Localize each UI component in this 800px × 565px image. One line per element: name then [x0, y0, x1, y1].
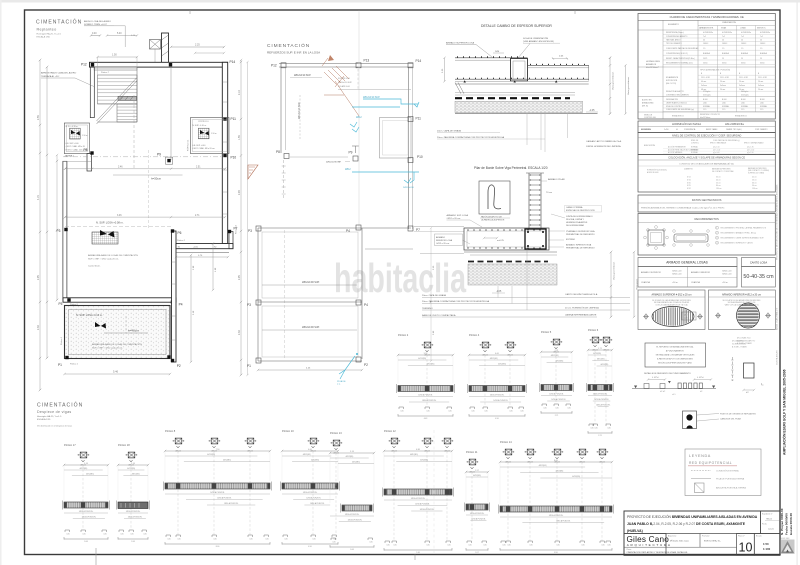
svg-text:156 cm: 156 cm	[752, 188, 758, 190]
svg-text:40 mm: 40 mm	[701, 81, 707, 83]
plan1 column P14	[223, 63, 226, 66]
svg-text:2.46: 2.46	[118, 166, 123, 168]
svg-text:C≥150: C≥150	[664, 129, 669, 131]
recubrimientos beam diagram	[674, 234, 708, 242]
plan2 column P10	[408, 158, 413, 163]
svg-text:Hormigón HA-25, Yc=1.5: Hormigón HA-25, Yc=1.5	[37, 32, 62, 35]
plan2 blue annotation upper	[352, 99, 419, 107]
svg-text:4Ø12(B5): 4Ø12(B5)	[498, 364, 506, 366]
detail1 gravel band	[455, 101, 583, 112]
svg-text:1Ø16 A PUNZON.: 1Ø16 A PUNZON.	[593, 393, 608, 396]
svg-text:CONT. CEMENTO: CONT. CEMENTO	[755, 129, 768, 131]
svg-text:Pórtico 12: Pórtico 12	[384, 429, 396, 433]
svg-text:CAJEADO APOYO PARRILLA / N.A.: CAJEADO APOYO PARRILLA / N.A.	[586, 140, 622, 143]
svg-text:BARRAS SUPERIORES: BARRAS SUPERIORES	[748, 167, 767, 170]
svg-text:20 mm: 20 mm	[720, 81, 726, 83]
svg-text:JUNTA. HORMIGÓN DE LIMPIEZA: JUNTA. HORMIGÓN DE LIMPIEZA	[586, 145, 621, 148]
svg-text:ARMADO INFERIOR VIGA: ARMADO INFERIOR VIGA	[566, 244, 592, 247]
svg-text:0.25: 0.25	[448, 411, 451, 413]
svg-text:4.86: 4.86	[416, 449, 420, 451]
svg-text:1Ø16 A PUNZON.: 1Ø16 A PUNZON.	[594, 398, 609, 401]
table4 colocacion anclaje	[638, 155, 775, 193]
svg-text:2Ø12: 2Ø12	[345, 169, 351, 171]
svg-text:25 B - 4 SR: 25 B - 4 SR	[720, 77, 730, 79]
detail2 beam top rebar dots	[467, 229, 540, 230]
svg-text:CANTO SEGÚN PLANILLA / N.A.: CANTO SEGÚN PLANILLA / N.A.	[565, 293, 598, 296]
svg-text:Pórtico 14: Pórtico 14	[500, 440, 512, 444]
svg-text:NIVEL DE CONTROL: NIVEL DE CONTROL	[666, 106, 682, 108]
recubrimientos square diagram	[648, 230, 664, 245]
svg-text:0.25: 0.25	[594, 428, 597, 430]
svg-text:25: 25	[722, 58, 724, 60]
svg-text:CONEXIÓN EXTERNA: CONEXIÓN EXTERNA	[716, 470, 739, 473]
paper edge right	[797, 0, 798, 565]
detail1 waterproof dashed band	[455, 97, 570, 99]
table7 armado general losas header	[638, 258, 737, 267]
plan1 dim 076	[176, 256, 228, 258]
svg-text:40: 40	[703, 39, 705, 41]
armado inferior crosshairs	[715, 313, 721, 319]
svg-text:40: 40	[676, 129, 678, 131]
svg-text:ARMADO INFERIOR # Ø12 a 20 cm: ARMADO INFERIOR # Ø12 a 20 cm	[722, 293, 761, 296]
svg-text:NIVEL DE: NIVEL DE	[691, 140, 698, 142]
title block escala cell	[754, 534, 780, 556]
svg-text:Varia geométricam.: Varia geométricam.	[627, 76, 630, 95]
plan2 notch lines	[362, 227, 411, 229]
svg-text:1Ø16 A PUNZON.: 1Ø16 A PUNZON.	[422, 399, 437, 402]
plan2 column P3 mid	[256, 226, 261, 231]
plan1 column P13	[169, 63, 172, 66]
plan2 red reinforcement marks	[324, 66, 359, 116]
svg-text:Fecha 00/00/00: Fecha 00/00/00	[785, 513, 789, 535]
armado superior crosshairs	[643, 314, 649, 320]
svg-text:Replanteo: Replanteo	[37, 28, 57, 32]
refuerzo pilar leader texts	[697, 414, 719, 416]
svg-text:Ø 20: Ø 20	[687, 182, 691, 184]
svg-text:P2: P2	[364, 363, 368, 367]
svg-text:SEGÚN LA SUPERFICIE(S) EN PLAN: SEGÚN LA SUPERFICIE(S) EN PLANO	[658, 362, 692, 365]
plan2 right dim line	[430, 228, 432, 361]
table1 cuadro de caracteristicas box	[638, 14, 775, 120]
table1 mid band acero	[638, 66, 775, 68]
svg-text:CUADRO DE CARACTERISTICAS Y ES: CUADRO DE CARACTERISTICAS Y ESPECIFICACI…	[670, 15, 744, 19]
svg-text:e=0.25: e=0.25	[497, 240, 505, 242]
svg-text:50-40-35 cm: 50-40-35 cm	[743, 274, 774, 280]
svg-text:130 cm: 130 cm	[716, 188, 722, 190]
svg-text:0.25: 0.25	[265, 539, 268, 541]
detail1 bottom leader verticals	[526, 114, 528, 145]
svg-text:H-25/B/20/IIa: H-25/B/20/IIa	[741, 32, 751, 34]
svg-text:0.25: 0.25	[507, 545, 510, 547]
svg-text:1Ø16 A PUNZON.: 1Ø16 A PUNZON.	[310, 502, 325, 505]
svg-text:0.25: 0.25	[543, 408, 546, 410]
plan1 column P8	[90, 151, 93, 154]
svg-text:Ø 25: Ø 25	[687, 185, 691, 187]
plan1 column P7	[228, 230, 231, 233]
svg-text:ARMADURA BASE DE LOSAS DE CIME: ARMADURA BASE DE LOSAS DE CIMENTACIÓN	[88, 254, 138, 257]
svg-text:Pórtico 4: Pórtico 4	[469, 333, 480, 337]
svg-text:ZAPATA 2: ZAPATA 2	[65, 155, 75, 158]
svg-text:≥500: ≥500	[722, 101, 726, 104]
svg-text:2.95: 2.95	[238, 275, 241, 280]
punzonamiento comb teeth	[678, 383, 681, 389]
svg-text:P6: P6	[178, 231, 182, 235]
svg-text:+0.00: +0.00	[193, 247, 198, 249]
svg-text:RECUBRIMIENTO INFERIOR Y CANTO: RECUBRIMIENTO INFERIOR Y CANTO	[721, 242, 754, 245]
svg-text:COLOCACIÓN, ANCLAJE Y SOLAPE: COLOCACIÓN, ANCLAJE Y SOLAPE DE ARMADURA…	[668, 157, 745, 160]
plan1 connector y161	[63, 160, 91, 162]
svg-text:P4: P4	[346, 229, 350, 233]
pilar section detail axis	[731, 357, 733, 381]
svg-text:3.64: 3.64	[84, 541, 88, 543]
svg-text:2.21: 2.21	[555, 350, 559, 352]
svg-text:7±2: 7±2	[703, 36, 706, 38]
legend item pica	[691, 478, 711, 480]
svg-text:H-25/B/20/IIa: H-25/B/20/IIa	[722, 32, 732, 34]
svg-text:Pórtico 2: Pórtico 2	[177, 239, 186, 242]
detail2 gravel band	[468, 264, 557, 285]
plan2 bottom dim	[258, 369, 362, 371]
svg-text:EXPOSICIÓN: EXPOSICIÓN	[666, 79, 678, 82]
svg-text:Pórtico 8: Pórtico 8	[165, 429, 176, 433]
svg-text:ESTADÍSTICO: ESTADÍSTICO	[735, 115, 747, 118]
svg-text:DE COSTA ESURI, AYAMONTE: DE COSTA ESURI, AYAMONTE	[696, 522, 746, 526]
plan1 column P3	[64, 228, 67, 231]
svg-text:25 B - 4 SR: 25 B - 4 SR	[739, 77, 749, 79]
svg-text:Varia geométricam.: Varia geométricam.	[613, 261, 616, 280]
svg-text:Escala 0000-00: Escala 0000-00	[789, 513, 793, 535]
detail2 ladder top hooks	[526, 172, 544, 174]
svg-text:35 cm: 35 cm	[716, 177, 721, 179]
svg-text:0.25: 0.25	[369, 542, 372, 544]
plan1 armado blob icon	[92, 230, 118, 244]
svg-text:(H) CARA 75d: (H) CARA 75d	[732, 340, 743, 343]
svg-text:JUAN PABLO II,: JUAN PABLO II,	[627, 522, 653, 526]
svg-text:0. Ø75d: 0. Ø75d	[697, 377, 703, 379]
fold mark bottom x415	[414, 555, 416, 561]
svg-text:ANCHO LOSA DEL ALERO: ANCHO LOSA DEL ALERO	[84, 20, 111, 23]
svg-text:+50 m: +50 m	[722, 282, 728, 284]
svg-text:Ver distribución en el despiec: Ver distribución en el despiece de losas	[37, 425, 72, 428]
svg-text:R2: R2	[214, 247, 216, 249]
svg-text:1Ø16 A PUNZON.: 1Ø16 A PUNZON.	[79, 510, 94, 513]
svg-text:ZAPATAS/RIOSTR.: ZAPATAS/RIOSTR.	[699, 27, 714, 30]
svg-text:D≥5mm: D≥5mm	[758, 84, 764, 87]
svg-text:25/75: 25/75	[703, 58, 707, 60]
svg-text:20cm. ZAHORRA COMPACTADA CON P: 20cm. ZAHORRA COMPACTADA CON PROTECCIÓN …	[422, 300, 490, 303]
svg-text:Pórtico 5: Pórtico 5	[541, 330, 552, 334]
plan1 beam hatch under	[94, 67, 137, 70]
plan1 column P1	[65, 356, 68, 359]
svg-text:50mm: 50mm	[703, 62, 708, 64]
detail1 slab bottom lines	[455, 83, 589, 85]
svg-text:A PUNZONAMIENTO: A PUNZONAMIENTO	[666, 350, 685, 353]
table1 grid verticals	[662, 20, 664, 119]
svg-text:4.50: 4.50	[308, 546, 312, 548]
svg-text:0.25: 0.25	[177, 539, 180, 541]
svg-text:CEM II: CEM II	[722, 43, 728, 45]
svg-text:4Ø12(B5): 4Ø12(B5)	[539, 465, 547, 467]
svg-text:RECUBRIMIENTO NOMINAL (mm): RECUBRIMIENTO NOMINAL (mm)	[666, 61, 693, 64]
svg-text:Varia geométricam.: Varia geométricam.	[612, 71, 615, 90]
plan1 column P9 boxed	[166, 157, 173, 164]
svg-text:0.25: 0.25	[529, 545, 532, 547]
armado superior small box right	[682, 312, 696, 320]
svg-text:10: 10	[739, 541, 753, 555]
svg-text:ARMADO SUP. LOSA: ARMADO SUP. LOSA	[447, 214, 469, 217]
svg-text:CIMENTACIÓN: CIMENTACIÓN	[722, 21, 736, 24]
svg-text:Pórtico 10: Pórtico 10	[282, 429, 294, 433]
svg-text:1.5: 1.5	[703, 48, 705, 50]
svg-text:PÓRTICO 6: PÓRTICO 6	[198, 120, 208, 123]
svg-text:1Ø16 A PUNZON.: 1Ø16 A PUNZON.	[418, 394, 433, 397]
plan2 column P9	[353, 156, 358, 161]
svg-text:h=50cm: h=50cm	[151, 177, 162, 181]
title block outer	[624, 511, 780, 555]
svg-text:ARMADO GENERAL LOSAS: ARMADO GENERAL LOSAS	[666, 261, 708, 265]
svg-text:LONGITUD DE LOS ANCLAJES DE BA: LONGITUD DE LOS ANCLAJES DE BARRAS(BAL) …	[680, 162, 735, 165]
svg-text:0.25: 0.25	[555, 408, 558, 410]
svg-text:4Ø12(B5): 4Ø12(B5)	[420, 460, 428, 462]
svg-text:CANTO LOSA: CANTO LOSA	[750, 261, 767, 265]
plan1 column P2 low	[171, 359, 174, 362]
svg-text:20 mm: 20 mm	[720, 89, 726, 91]
svg-text:NORMAL: NORMAL	[722, 105, 729, 108]
svg-text:0.25: 0.25	[213, 539, 216, 541]
detail1 right dim lines	[609, 58, 611, 114]
svg-text:1Ø16 A PUNZON.: 1Ø16 A PUNZON.	[210, 491, 225, 494]
svg-text:20cm. ZAHORRA COMPACTADA CON P: 20cm. ZAHORRA COMPACTADA CON PROTECCIÓN …	[437, 136, 505, 139]
svg-text:LÁMINA IMPERMEABILIZANTE: LÁMINA IMPERMEABILIZANTE	[565, 314, 597, 317]
armado superior ellipse hatched	[652, 307, 694, 327]
svg-text:2.95: 2.95	[37, 275, 40, 280]
svg-text:P9: P9	[157, 152, 161, 156]
plan1 mid dim line2	[65, 216, 225, 218]
svg-text:D≥5mm: D≥5mm	[720, 84, 726, 87]
svg-text:300 kg/m³: 300 kg/m³	[741, 90, 749, 93]
svg-text:0.25: 0.25	[502, 545, 505, 547]
detail1 upper slab left rebar	[455, 57, 528, 59]
svg-text:1:50: 1:50	[763, 542, 769, 546]
svg-text:0.25: 0.25	[471, 411, 474, 413]
svg-text:fck=25 N/mm²: fck=25 N/mm²	[646, 66, 659, 69]
svg-text:PRESIÓN ADMISIBLE DEL TERRENO: PRESIÓN ADMISIBLE DEL TERRENO CONSIDERAD…	[641, 206, 725, 209]
svg-text:P12: P12	[271, 64, 277, 68]
svg-text:2.30: 2.30	[37, 325, 40, 330]
svg-text:Pórtico 13: Pórtico 13	[330, 431, 342, 435]
plan1 bottom dim line	[65, 373, 171, 375]
svg-text:AMPLIACIÓN ESURI GOLF Y SAN M: AMPLIACIÓN ESURI GOLF Y SAN MIGUEL 2005-…	[782, 369, 787, 455]
punzonamiento notes box	[645, 343, 706, 367]
svg-text:1.10 m: 1.10 m	[211, 133, 217, 135]
svg-text:ESTRIBO: ESTRIBO	[566, 239, 576, 241]
svg-text:P4: P4	[364, 303, 368, 307]
svg-text:3.14: 3.14	[350, 451, 354, 453]
svg-text:4.15: 4.15	[37, 195, 40, 200]
svg-text:N. SUP. -0.10 m.: N. SUP. -0.10 m.	[192, 125, 207, 127]
plan1 internal wall P6-P2	[172, 231, 177, 362]
paper edge shading	[0, 0, 800, 3]
svg-text:Promotor:: Promotor:	[702, 535, 710, 538]
svg-text:1.5: 1.5	[741, 48, 743, 50]
svg-text:0.65 kg/m³: 0.65 kg/m³	[703, 93, 711, 96]
svg-text:Ø 16: Ø 16	[687, 179, 691, 181]
svg-text:AVDA. JUAN PABLO II: AVDA. JUAN PABLO II	[776, 307, 779, 330]
svg-text:1Ø16 A PUNZON.: 1Ø16 A PUNZON.	[128, 516, 143, 519]
plan2 P9 bracket	[352, 145, 359, 147]
svg-text:4: 4	[716, 243, 717, 245]
svg-text:RESIST. CARACTERÍSTICA (25 N/m: RESIST. CARACTERÍSTICA (25 N/m)	[666, 57, 695, 60]
plan1 stairs upper flight	[98, 75, 138, 104]
svg-text:PERIMETRAL DE REFUERZO: PERIMETRAL DE REFUERZO	[566, 247, 595, 250]
svg-text:42 cm: 42 cm	[752, 177, 757, 179]
svg-text:P4: P4	[179, 303, 183, 307]
table6 recubrimientos	[638, 214, 775, 256]
svg-text:BLANDA: BLANDA	[760, 52, 768, 55]
svg-text:RECUBRIMIENTO ARMADO PRINC. B/: RECUBRIMIENTO ARMADO PRINC. B/D(+)	[721, 232, 757, 235]
plan1 lower slab rectangle hatched	[65, 306, 171, 359]
plan1 wall below P8	[87, 154, 92, 172]
plan2 blue mark at P2	[356, 353, 358, 355]
svg-text:PICA DE: PICA DE	[337, 380, 346, 383]
svg-text:SOLA DE CIMENTACIÓN: SOLA DE CIMENTACIÓN	[523, 37, 549, 40]
svg-text:LA PARRILLA SUPERIOR: LA PARRILLA SUPERIOR	[481, 218, 505, 221]
svg-text:SOBRE 1 TREN. ±0.07: SOBRE 1 TREN. ±0.07	[84, 24, 107, 26]
svg-text:1.5: 1.5	[722, 48, 724, 50]
svg-text:NORMAL: NORMAL	[741, 105, 748, 108]
svg-text:0.25: 0.25	[120, 534, 123, 536]
detail1 ground line	[455, 113, 598, 115]
title block promotor cell	[699, 534, 701, 548]
svg-text:20 mm: 20 mm	[739, 81, 745, 83]
svg-text:P11: P11	[416, 117, 422, 121]
plan1 column P2 corner	[167, 355, 170, 358]
svg-text:R2: R2	[178, 247, 180, 249]
svg-text:0.25: 0.25	[590, 428, 593, 430]
plan2 red triangle lower-left	[248, 165, 258, 179]
svg-text:2.55: 2.55	[37, 115, 40, 120]
legend box	[685, 449, 761, 496]
svg-text:ARMADO INFERIOR: ARMADO INFERIOR	[691, 271, 710, 274]
plan2 sup annotation mid	[262, 284, 357, 286]
plan2 column P7	[408, 226, 413, 231]
svg-text:ACERO EN: ACERO EN	[642, 99, 652, 102]
svg-text:4Ø12(B5): 4Ø12(B5)	[86, 474, 94, 476]
svg-text:P1: P1	[247, 364, 251, 368]
detail1 left dim	[444, 58, 446, 82]
svg-text:7±2: 7±2	[741, 36, 744, 38]
punzonamiento left rects	[644, 384, 649, 389]
svg-text:3: 3	[716, 238, 717, 240]
svg-text:P10: P10	[417, 155, 423, 159]
svg-text:B-500: B-500	[703, 99, 708, 101]
table5 datos geotecnicos	[638, 195, 775, 212]
svg-text:Arquitecto:: Arquitecto:	[668, 535, 677, 538]
svg-text:2.90: 2.90	[238, 190, 241, 195]
refuerzo pilar black dot detail	[683, 411, 697, 429]
svg-text:4 EST. CUAD. Ø8 a 20 cm: 4 EST. CUAD. Ø8 a 20 cm	[192, 147, 215, 150]
svg-text:25 B - 4 SR: 25 B - 4 SR	[758, 77, 768, 79]
plan2 column P13	[356, 63, 361, 68]
svg-text:(V) RELLENO(H): (V) RELLENO(H)	[732, 344, 746, 346]
svg-text:N. SUP. LOSA -0.10 m.: N. SUP. LOSA -0.10 m.	[76, 313, 103, 317]
svg-text:0.25: 0.25	[601, 545, 604, 547]
svg-text:0.25: 0.25	[426, 545, 429, 547]
svg-text:CIMENTACIÓN. REPLANTEO Y DESP: CIMENTACIÓN. REPLANTEO Y DESPIECE DE VIG…	[627, 551, 689, 554]
svg-text:5.36: 5.36	[416, 552, 420, 554]
svg-text:1Ø16 A PUNZON.: 1Ø16 A PUNZON.	[551, 398, 566, 401]
svg-text:RESISTENC. PROYECTO: RESISTENC. PROYECTO	[700, 114, 721, 116]
svg-text:EL REFUERZO DE ARMADURA VERTIC: EL REFUERZO DE ARMADURA VERTICAL	[656, 346, 693, 349]
svg-text:RED EQUIPOTENCIAL: RED EQUIPOTENCIAL	[689, 461, 732, 465]
svg-text:0.25: 0.25	[607, 545, 610, 547]
detail2 beam body	[464, 228, 549, 250]
svg-text:0.25: 0.25	[167, 539, 170, 541]
svg-text:0.25: 0.25	[249, 539, 252, 541]
svg-text:BLANDA: BLANDA	[703, 52, 711, 55]
svg-text:-1.05: -1.05	[496, 291, 502, 293]
svg-text:4Ø12(B5): 4Ø12(B5)	[572, 476, 580, 478]
svg-text:PICA DE PUESTA A TIERRA: PICA DE PUESTA A TIERRA	[716, 478, 745, 481]
svg-text:NIVEL DE CONTROL DE EJECUCIÓN: NIVEL DE CONTROL DE EJECUCIÓN Y COEF. SE…	[672, 134, 742, 137]
svg-text:RECUBRIMIENTO FRONTAL LATERAL: RECUBRIMIENTO FRONTAL LATERAL PARAMENTO …	[721, 227, 767, 230]
svg-text:P14: P14	[416, 59, 422, 63]
svg-text:0.25: 0.25	[66, 534, 69, 536]
detail2 dim2	[633, 252, 635, 317]
svg-text:ARQUETA PUESTA A TIERRA: ARQUETA PUESTA A TIERRA	[716, 487, 746, 490]
plan2 centre dash mid	[284, 230, 286, 360]
svg-text:A PARTIR DE APOYO DE DIMENSION: A PARTIR DE APOYO DE DIMENSIONES	[657, 358, 693, 361]
pilar section detail dim	[744, 389, 755, 391]
svg-text:CONTENIDO MIN. CEMENTO: CONTENIDO MIN. CEMENTO	[666, 94, 690, 96]
svg-text:RESISTENCIA (N/mm²): RESISTENCIA (N/mm²)	[666, 31, 684, 34]
svg-text:COEFICIENTE DE SEGURIDAD (γs): COEFICIENTE DE SEGURIDAD (γs)	[666, 108, 694, 111]
svg-text:1Ø16 A PUNZON.: 1Ø16 A PUNZON.	[470, 512, 485, 515]
svg-text:d/2 d/2: d/2 d/2	[660, 391, 665, 393]
svg-text:4.00: 4.00	[495, 353, 499, 355]
svg-text:SUP. e INF.: # Ø12 cada 20 cm.: SUP. e INF.: # Ø12 cada 20 cm.	[92, 348, 123, 350]
plan2 fold/centre line	[358, 12, 360, 228]
svg-text:habitaclia: habitaclia	[334, 255, 466, 301]
plan1 dim vertical 198	[212, 244, 214, 291]
plan2 column P4 low	[356, 300, 361, 305]
svg-text:Pórtico 2: Pórtico 2	[398, 333, 409, 337]
svg-text:EN AMBIENTE: EN AMBIENTE	[666, 76, 679, 79]
svg-text:20cm. CAPA DE GRAVA: 20cm. CAPA DE GRAVA	[422, 294, 446, 297]
plan1 right thick wall	[222, 62, 227, 243]
svg-text:N. Proyec 0000-00: N. Proyec 0000-00	[780, 508, 784, 535]
svg-text:0.25: 0.25	[581, 545, 584, 547]
plan1 stair well edge	[136, 67, 138, 122]
svg-text:4Ø12(B5): 4Ø12(B5)	[551, 355, 559, 357]
svg-text:7.50: 7.50	[216, 449, 220, 451]
svg-text:4Ø12(B5): 4Ø12(B5)	[132, 474, 140, 476]
svg-text:B-500: B-500	[722, 99, 727, 101]
svg-text:Ø12: Ø12	[684, 315, 687, 317]
svg-text:1Ø16 A PUNZON.: 1Ø16 A PUNZON.	[217, 497, 232, 500]
svg-text:0.25: 0.25	[393, 545, 396, 547]
plan2 column P3 low	[256, 300, 261, 305]
svg-text:B-500: B-500	[741, 99, 746, 101]
svg-text:D≥5mm: D≥5mm	[701, 84, 707, 87]
svg-text:4Ø12(B5): 4Ø12(B5)	[555, 471, 563, 473]
svg-text:4Ø12(B5): 4Ø12(B5)	[555, 361, 563, 363]
svg-text:275 kg/m³: 275 kg/m³	[703, 90, 711, 93]
svg-text:20cm. CAPA DE GRAVA: 20cm. CAPA DE GRAVA	[437, 130, 461, 133]
plan2 inf annotation low	[262, 329, 357, 331]
svg-text:0.25: 0.25	[484, 411, 487, 413]
detail2 column ladder	[528, 173, 530, 229]
